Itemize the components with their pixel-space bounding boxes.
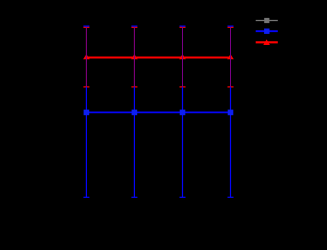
red series line (86, 57, 230, 59)
blue error bar caps (83, 26, 233, 197)
legend entry 2: blue square marker (264, 29, 269, 34)
legend entry 1: gray line (256, 20, 278, 22)
legend entry 3: red line (256, 41, 278, 43)
legend entry 2: blue line (256, 30, 278, 32)
legend entry 1: gray square marker (264, 18, 269, 23)
red error bar verticals (86, 27, 230, 87)
legend entry 3: red triangle marker (263, 39, 270, 45)
blue series line (86, 111, 230, 113)
red triangle markers (83, 54, 234, 59)
red error bar caps (83, 27, 233, 87)
blue square markers (84, 110, 234, 116)
blue error bar verticals upper (purple overlap over red) (86, 26, 230, 87)
blue error bar verticals lower (86, 87, 230, 197)
